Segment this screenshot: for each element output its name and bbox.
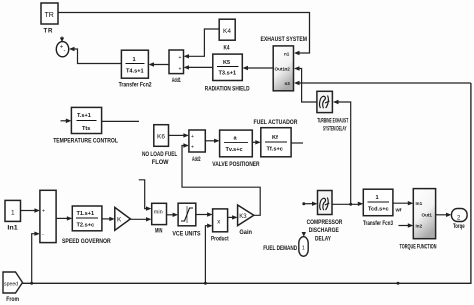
subsystem TORQUE FUNCTION	[400, 189, 437, 251]
svg-text:Tv.s+c: Tv.s+c	[226, 147, 243, 153]
outport 1 FUEL DEMAND	[263, 237, 308, 257]
svg-text:x: x	[217, 220, 220, 226]
svg-text:K: K	[117, 217, 122, 224]
svg-text:K6: K6	[157, 134, 165, 141]
delay TURBINE EXHAUST SYSTEM DELAY	[317, 91, 348, 132]
wire elbow into min top input	[139, 180, 152, 211]
saturation VCE UNITS	[172, 203, 200, 237]
wire gain K to min	[130, 217, 151, 221]
svg-text:Transfer Fcn2: Transfer Fcn2	[119, 82, 152, 89]
wire sum output stub to temperature control	[61, 119, 72, 124]
wire valve positioner to fuel actuator	[252, 140, 260, 144]
transfer fcn FUEL ACTUADOR	[254, 119, 298, 157]
svg-text:+: +	[42, 209, 45, 215]
svg-text:NO LOAD FUEL: NO LOAD FUEL	[142, 151, 177, 158]
svg-text:VCE UNITS: VCE UNITS	[172, 231, 200, 238]
svg-text:Tts: Tts	[82, 126, 90, 132]
svg-text:In1: In1	[7, 225, 18, 232]
svg-text:T2.s+c: T2.s+c	[77, 223, 95, 229]
wire fuel actuator output stub	[291, 142, 303, 144]
svg-text:K5: K5	[223, 60, 230, 66]
sum Add2	[189, 130, 205, 163]
outport 2 Torqe	[452, 209, 468, 231]
transfer fcn RADIATION SHIELD	[205, 54, 250, 92]
wire speed sum to governor	[56, 216, 72, 220]
wire In1 to speed sum	[21, 208, 40, 212]
wire speed feedback main line	[23, 83, 471, 283]
sum circle (temperature error)	[56, 42, 68, 57]
block MIN	[152, 203, 167, 234]
svg-text:TORQUE FUNCTION: TORQUE FUNCTION	[400, 244, 437, 251]
svg-text:K4: K4	[223, 28, 231, 35]
svg-text:In2: In2	[416, 224, 423, 229]
svg-text:TEMPERATURE CONTROL: TEMPERATURE CONTROL	[53, 138, 118, 145]
sum speed reference	[40, 190, 56, 242]
svg-text:K3: K3	[239, 214, 247, 220]
svg-text:TR: TR	[44, 28, 54, 35]
svg-text:+: +	[191, 134, 194, 140]
transfer fcn Transfer Fcn2	[119, 50, 152, 88]
svg-text:From: From	[6, 296, 19, 303]
svg-text:T4.s+1: T4.s+1	[126, 69, 144, 75]
wire Add2 to valve positioner	[205, 139, 219, 143]
transfer fcn Transfer Fcn3	[363, 189, 393, 227]
svg-text:T.s+1: T.s+1	[77, 113, 91, 119]
svg-text:+: +	[179, 55, 182, 61]
svg-text:+: +	[191, 145, 194, 151]
svg-text:Torqe: Torqe	[453, 223, 465, 230]
transfer fcn SPEED GOVERNOR	[62, 206, 111, 245]
wire torque Out1 to outport 2	[436, 213, 452, 217]
svg-text:-: -	[64, 48, 66, 55]
wire speed branch into torque In2	[399, 223, 414, 227]
svg-text:FUEL ACTUADOR: FUEL ACTUADOR	[254, 119, 298, 126]
svg-text:n1: n1	[284, 52, 290, 57]
svg-text:Product: Product	[211, 236, 229, 243]
svg-text:Out1: Out1	[422, 213, 433, 218]
svg-text:DELAY: DELAY	[315, 236, 332, 243]
svg-text:+: +	[179, 67, 182, 73]
wire RADIATION SHIELD to Add1	[184, 65, 213, 69]
delay COMPRESSOR DISCHARGE DELAY	[307, 191, 343, 243]
svg-text:Wf: Wf	[396, 208, 402, 213]
wire product to gain K3	[228, 215, 238, 219]
svg-text:MIN: MIN	[155, 228, 163, 235]
transfer fcn TEMPERATURE CONTROL	[53, 107, 118, 144]
inport In1	[5, 200, 21, 231]
svg-text:T3.s+1: T3.s+1	[219, 71, 237, 77]
gain K6	[142, 125, 177, 166]
svg-text:T1.s+1: T1.s+1	[77, 211, 95, 217]
svg-text:Kf: Kf	[272, 135, 278, 141]
svg-text:1: 1	[133, 57, 136, 63]
from tag speed	[3, 272, 23, 303]
node speed junction 2	[204, 282, 207, 285]
svg-text:TR: TR	[45, 12, 54, 19]
svg-text:1: 1	[302, 246, 305, 252]
wire Add1 output to Transfer Fcn2	[149, 62, 170, 66]
wire turbine delay output to exhaust n2	[294, 66, 317, 102]
wire governor to gain K	[102, 217, 115, 221]
wire junction to compressor delay	[304, 202, 318, 206]
svg-text:In1: In1	[416, 201, 423, 206]
sum Add1	[169, 50, 184, 84]
wire Wf junction up to turbine delay input	[333, 100, 351, 205]
wire speed to governor sum	[32, 232, 40, 284]
svg-text:speed: speed	[4, 282, 18, 288]
svg-text:Tf.s+c: Tf.s+c	[267, 147, 283, 153]
svg-text:n2: n2	[285, 67, 291, 72]
wire temperature control output	[102, 120, 139, 122]
svg-text:1: 1	[376, 195, 379, 201]
wire K6 to Add2	[169, 133, 189, 137]
wire VCE UNITS to product	[196, 212, 213, 216]
svg-text:n3: n3	[285, 81, 291, 86]
svg-text:TURBINE EXHAUST: TURBINE EXHAUST	[317, 118, 348, 125]
svg-text:min: min	[154, 210, 163, 216]
gain K	[115, 207, 131, 230]
svg-text:Transfer Fcn3: Transfer Fcn3	[363, 220, 393, 227]
wire K4 to Add1	[184, 29, 220, 59]
wire arrow down into fuel demand port	[302, 232, 306, 237]
wire compressor delay to Transfer Fcn3	[332, 202, 363, 206]
gain K3	[238, 205, 254, 236]
svg-text:SYSTEM DELAY: SYSTEM DELAY	[323, 125, 347, 132]
wire arrow into sum top	[60, 37, 64, 43]
wire K3 gain up to Add2 lower input	[182, 143, 260, 215]
svg-text:COMPRESSOR: COMPRESSOR	[307, 219, 343, 226]
wire speed feedback to exhaust n3	[294, 81, 471, 85]
wire Transfer Fcn2 output to sum	[69, 47, 121, 64]
svg-text:EXHAUST SYSTEM: EXHAUST SYSTEM	[261, 36, 308, 43]
svg-text:K4: K4	[224, 45, 230, 52]
subsystem EXHAUST SYSTEM	[261, 36, 308, 91]
gain K4	[219, 19, 235, 51]
wire speed to product In2	[205, 224, 212, 284]
svg-text:DISCHARGE: DISCHARGE	[309, 227, 339, 234]
node fuel demand junction	[302, 202, 305, 205]
svg-text:FUEL DEMAND: FUEL DEMAND	[263, 245, 297, 252]
product block	[211, 209, 229, 243]
svg-text:-: -	[42, 232, 44, 238]
svg-text:Add1: Add1	[172, 77, 181, 84]
wire min to VCE UNITS	[167, 213, 179, 217]
svg-text:FLOW: FLOW	[152, 159, 169, 166]
svg-text:RADIATION SHIELD: RADIATION SHIELD	[205, 86, 250, 93]
svg-text:1: 1	[11, 210, 15, 217]
svg-text:VALVE POSITIONER: VALVE POSITIONER	[212, 161, 260, 168]
wire Transfer Fcn3 to torque In1, signal Wf	[393, 201, 413, 213]
svg-text:Gain: Gain	[239, 229, 252, 236]
wire TR to exhaust n1	[58, 13, 310, 56]
node speed junction 3	[397, 282, 400, 285]
constant TR	[41, 3, 58, 35]
wire exhaust Out1 to RADIATION SHIELD	[243, 66, 274, 70]
svg-text:SPEED GOVERNOR: SPEED GOVERNOR	[62, 238, 111, 245]
svg-text:Tcd.s+c: Tcd.s+c	[368, 207, 389, 213]
svg-text:Add2: Add2	[192, 156, 201, 163]
transfer fcn VALVE POSITIONER	[212, 130, 260, 168]
node speed junction 1	[30, 282, 33, 285]
